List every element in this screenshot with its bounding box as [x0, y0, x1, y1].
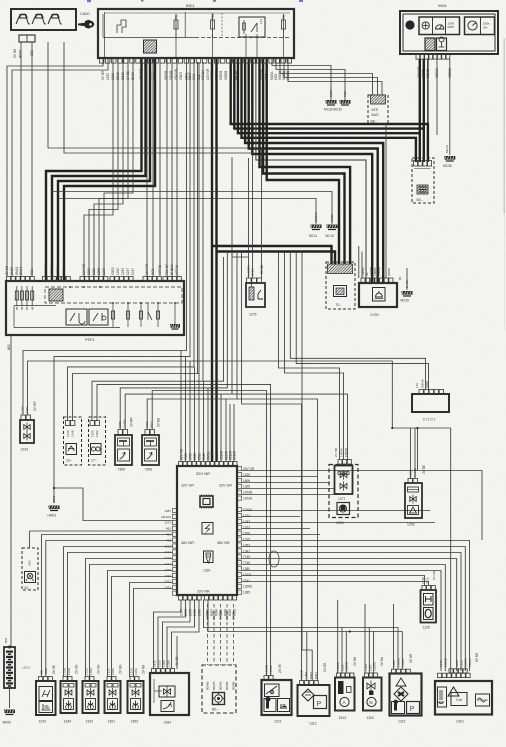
brake unit 1513: [335, 678, 355, 711]
wire 1320R cascade 4: [242, 565, 446, 672]
relay 1276: [246, 283, 265, 307]
wire 1320R fan 494.5: [242, 494, 341, 496]
ground M000: [4, 710, 15, 716]
wire 1264 2: [163, 600, 191, 670]
engine control unit 1320: [177, 466, 237, 595]
wire BSI to PSF1 thick 2: [52, 58, 146, 281]
wire BSI-PSF1 thin 1: [89, 58, 118, 277]
label BSI1: [186, 3, 195, 8]
wire mesh y356: [54, 58, 190, 503]
wire BSI band CV00 a: [245, 58, 383, 283]
wire 1310 right drop: [450, 428, 452, 674]
wire mesh y394r: [232, 394, 348, 420]
label PSF1: [85, 338, 95, 342]
C001 pin labels: [415, 378, 429, 388]
wire BSI to PSF1 thick 4: [64, 58, 155, 281]
key icon: [78, 20, 95, 29]
wire BSI to PSF1 thick 1: [46, 58, 142, 281]
wire 1320L 4: [86, 559, 173, 678]
wire BSI-PSF1 thinR 0: [146, 58, 148, 277]
label CV00: [370, 313, 379, 317]
label 1513: [339, 716, 347, 720]
label 1208: [336, 521, 344, 525]
1312 pin labels: [300, 662, 328, 679]
wire 1320R cascade 0: [242, 541, 470, 672]
BSI1 pin labels: [101, 68, 290, 80]
labels MC11 MC10: [309, 211, 334, 238]
wire 1264 4: [172, 600, 200, 670]
actuator 1351: [105, 677, 121, 713]
wire BSI-PSF1 thinR 4: [171, 58, 173, 277]
1129 pin labels: [421, 570, 436, 584]
ground MC32: [340, 100, 351, 106]
ground MC11: [311, 225, 322, 231]
wire 1115 up: [364, 604, 366, 674]
wire ATR to CV00: [385, 124, 387, 278]
wire 1221 b: [152, 391, 266, 677]
1276 pin row: [247, 278, 262, 283]
wire 1115 d1: [368, 628, 370, 674]
1221 pin row: [264, 676, 273, 681]
1334 pin labels: [63, 664, 79, 675]
wire 1129 long: [417, 428, 419, 470]
wire BSI band B4 a: [231, 58, 428, 162]
label 1351: [108, 720, 116, 724]
connector C001: [412, 394, 449, 412]
wire mesh y350: [23, 58, 187, 415]
wire branch to 70 thick 2: [217, 252, 336, 267]
wire BSI to 1320 thick 2: [215, 58, 217, 462]
wire v302: [302, 252, 312, 681]
wire left edge2: [12, 58, 108, 277]
blower unit 1264: [150, 673, 189, 715]
fan unit 1277 / 1208: [329, 465, 358, 518]
1264 pin row: [152, 669, 175, 673]
0004 pin labels: [417, 66, 452, 78]
B0 dashed wires: [206, 604, 236, 690]
ground MC30 right: [402, 291, 413, 297]
wire mesh y404r: [242, 404, 302, 440]
wire BSI-PSF1 thinR 2: [159, 58, 161, 277]
wire 1264 0: [154, 600, 182, 670]
label 1310: [456, 720, 464, 724]
1129 pin row: [422, 586, 435, 591]
wire busR2: [208, 600, 402, 670]
wire ATR 1: [280, 58, 373, 95]
wire MC35: [449, 59, 451, 155]
wire 1264 extra: [176, 636, 178, 669]
wire BSI band 70 c: [267, 58, 339, 266]
1115 pin row: [365, 673, 378, 677]
1264 pin labels: [153, 656, 179, 667]
wire BSI-PSF1 thinR 3: [166, 58, 168, 277]
wire 42 lamp: [29, 530, 172, 532]
1332 pin labels: [85, 664, 101, 675]
wire v290: [290, 252, 425, 389]
wire BSI-PSF1 thin 2: [94, 58, 123, 277]
label 1220: [39, 720, 47, 724]
wire mesh 7306b: [236, 253, 238, 399]
wire BSI band CV00 b: [249, 58, 378, 283]
wire 1320R cascade 3: [242, 559, 457, 672]
wire 1312 b: [317, 440, 319, 681]
1312 pin row: [300, 681, 319, 686]
wire 1320R 1312p4: [242, 476, 318, 478]
1513 pin labels: [336, 656, 357, 671]
connector B0: [202, 665, 236, 713]
wire BSI v203: [202, 62, 204, 381]
engine ecu 1310: [435, 681, 492, 715]
wire bus C001 low: [392, 427, 450, 429]
wire BSI-PSF1 thin 3: [99, 58, 128, 277]
wire MC30: [272, 58, 331, 100]
wire 0004 down thick 2: [423, 59, 425, 128]
connector CB1: [19, 35, 35, 42]
wire 1320L 2: [64, 547, 173, 678]
wire 1320 top stub 5: [203, 381, 205, 461]
wire 1513 up: [337, 600, 339, 674]
fuel gauge sender 1221: [262, 680, 292, 715]
label 0004: [438, 4, 446, 8]
wire busR1: [204, 600, 399, 670]
connector 17: [89, 417, 106, 465]
1253 pin labels: [409, 465, 427, 477]
wire 1320L 1: [46, 541, 173, 678]
fuel pump 1321: [390, 674, 422, 716]
label 1233: [21, 448, 29, 452]
1277 pin labels: [334, 447, 348, 457]
wire BSI to 1320 thick 1: [211, 58, 213, 462]
1320 left pin column: [173, 509, 178, 596]
wire 1320 top stub 0: [180, 351, 182, 462]
sensor 1220: [36, 677, 56, 715]
connector 70: [326, 262, 355, 309]
ground MC10: [327, 225, 338, 231]
wire BSI v197: [197, 62, 199, 374]
1353 pin labels: [130, 664, 146, 675]
wire MC32: [276, 58, 345, 100]
wire 1221 a: [97, 384, 271, 676]
wire 1129 a: [242, 576, 425, 586]
1115 pin labels: [364, 656, 384, 671]
wire 1320R cascade 5: [242, 571, 442, 672]
BSI1 pin row: [100, 59, 292, 64]
label 1276: [249, 313, 257, 317]
wire CA00 c: [48, 42, 262, 278]
wire 1253 up2: [414, 428, 416, 479]
wire 1264 1: [158, 600, 186, 670]
wire MC10: [51, 192, 332, 225]
park assist 1312: [298, 685, 330, 716]
1320 top pin labels: [179, 448, 236, 460]
wire branch to 70 thick 1: [212, 246, 332, 266]
wire BSI-PSF1 thin 4: [104, 58, 133, 277]
wire 1320 top stub 6: [207, 388, 209, 462]
wire 1320 top stub 3: [194, 367, 196, 462]
wire 1320R cascade 1: [242, 547, 466, 672]
wire 0004 down thick 1: [419, 59, 421, 132]
wire MC30b: [406, 268, 408, 290]
label M000: [3, 637, 12, 724]
1320 bottom pin labels: [179, 609, 236, 616]
PSF1 pin labels: [5, 263, 179, 275]
ground MC35: [444, 156, 455, 162]
wire CA00 d: [64, 42, 253, 278]
scan page edge artifact: [504, 38, 505, 213]
wire 1115 d2: [373, 632, 375, 674]
wire 42 drop: [28, 531, 30, 548]
heater 7306 at 115: [115, 417, 134, 472]
wire 1320 top stub 7: [220, 394, 222, 461]
label CA00: [80, 12, 90, 16]
wire BSI band B4 b: [234, 58, 423, 162]
wire HM01 branch: [54, 488, 173, 521]
0004 pin row: [416, 55, 450, 60]
actuator 1334: [61, 677, 77, 713]
1233 pin row: [21, 415, 31, 420]
BSI1 body control unit: [98, 9, 294, 58]
1233 pin labels: [21, 401, 38, 413]
wire v278: [279, 252, 340, 460]
label 5V NE: [13, 49, 23, 58]
wire 1320 top stub 2: [189, 361, 191, 462]
airbag control B5: [368, 95, 388, 124]
CV00 pin labels: [361, 265, 391, 276]
1221 pin labels: [265, 664, 283, 674]
wire 1312 d1: [306, 632, 308, 682]
label HM01: [48, 495, 57, 517]
wire 1320L 7: [112, 577, 173, 678]
wire mesh y394: [125, 253, 232, 429]
1320 top pin row: [179, 462, 238, 467]
wire 1320R cascade 2: [242, 553, 462, 672]
label 1321: [398, 720, 406, 724]
ignition switch CA00: [11, 9, 76, 30]
instrument cluster 0004: [400, 11, 498, 54]
1276 pin labels: [247, 265, 265, 276]
wire BSI band B4 d: [242, 58, 416, 162]
label 1253: [407, 523, 415, 527]
lamp connector 43: [22, 548, 38, 590]
cigar lighter 1129: [421, 590, 437, 623]
wire BSI-PSF1 thinR 1: [152, 58, 154, 277]
1253 pin row: [408, 479, 418, 484]
wire v284: [284, 252, 343, 460]
wire BSI band 70 a: [260, 58, 351, 266]
wire 1277 c: [347, 420, 349, 460]
1277 pin row: [338, 460, 351, 465]
wire mesh y373: [73, 62, 200, 421]
wire BSI band B4 c: [238, 58, 420, 162]
wire 1320L 5: [90, 565, 173, 678]
wire M000 top: [10, 335, 12, 647]
wire 1320R fan 510.5: [242, 510, 431, 512]
wire 1320R fan 522.5: [242, 522, 436, 524]
wire 1320 top stub 4: [198, 374, 200, 462]
wire 1312 a: [301, 440, 303, 681]
CV00 pin row: [361, 278, 393, 283]
wire 1129 b: [242, 582, 429, 586]
wire mesh y388: [120, 253, 227, 429]
switch 1233: [20, 420, 34, 443]
fan unit 1115: [363, 678, 382, 711]
scan artifact: [87, 0, 303, 2]
wire 1513 d2: [345, 632, 347, 674]
wire 1253 up1: [410, 428, 412, 479]
wire 1320 top stub 8: [225, 399, 227, 462]
wire BSI band 70 b: [263, 58, 344, 266]
connector 16: [64, 417, 82, 465]
wire 1320L 9: [134, 589, 173, 678]
wire left edge: [7, 58, 103, 277]
1351 pin labels: [107, 664, 123, 675]
1220 pin labels: [40, 665, 57, 675]
wire 1321 up: [393, 604, 395, 670]
wire 1276 pin1 up: [248, 158, 250, 278]
wire mesh 7306b2: [241, 253, 243, 404]
labels MC30 MC32: [324, 88, 347, 111]
ground HM01: [49, 506, 60, 512]
wire 1320R fan 528.5: [242, 528, 311, 530]
wire 1320 top stub 1: [185, 357, 187, 462]
wire loop ellipse: [269, 551, 279, 567]
wire BSI-PSF1 thin 0: [84, 58, 113, 277]
1321 pin row: [392, 669, 411, 673]
label 1129: [423, 626, 430, 630]
label 1332: [86, 720, 94, 724]
wire mesh y365 long: [28, 361, 393, 428]
wire ATR 2: [284, 58, 378, 95]
wire 1264 3: [167, 600, 195, 670]
wire M000 bot: [9, 688, 11, 708]
label 1264: [164, 721, 172, 725]
wire BSI-PSF1 thinR 5: [176, 58, 178, 277]
wire CV00 thin a: [358, 246, 360, 278]
1310 pin labels: [439, 652, 479, 667]
wire 1320L 6: [108, 571, 173, 678]
label B62: [7, 344, 11, 350]
label 1334: [64, 720, 72, 724]
connector B4: [412, 158, 434, 203]
1320 bottom pin row: [179, 596, 237, 601]
wire 1320R fan 516.5: [242, 516, 301, 518]
1321 pin labels: [392, 653, 413, 667]
wire 1320R a: [242, 471, 483, 541]
label 1115: [367, 716, 374, 720]
wire CA00 b: [31, 42, 33, 277]
wire 0004 down thin: [427, 59, 429, 136]
1320 right pin labels: [243, 467, 255, 595]
wire 0004 thin a: [436, 59, 438, 135]
1320 left pin labels: [161, 509, 172, 590]
wire 1320L 8: [130, 583, 173, 678]
ground MC30: [326, 100, 337, 106]
C001 pin row: [419, 390, 444, 395]
label 1353: [131, 720, 139, 724]
wire CV00 thin b: [361, 252, 363, 279]
wire BSI band CV00 c: [252, 58, 372, 283]
wire 1320L 0: [42, 535, 173, 678]
wire 1320 top stub 9: [229, 404, 231, 462]
buzzer CV00: [359, 283, 397, 307]
label MC35: [443, 145, 452, 168]
wire 1320R fan 488.5: [242, 488, 336, 490]
wire BSI to PSF1 thick 3: [58, 58, 150, 281]
1310 pin row: [438, 669, 471, 678]
1320 right pin column: [237, 467, 242, 595]
label LB30L: [22, 666, 31, 670]
actuator 1353: [128, 677, 144, 713]
1513 pin row: [337, 673, 354, 677]
wire ATR 3: [288, 58, 382, 95]
resistor chain M000: [4, 646, 15, 688]
wire mesh y381: [92, 257, 224, 421]
heater 7306 at 142: [142, 417, 161, 471]
wire 1320 top stub 10: [233, 404, 235, 462]
wire 1320R fan 482.5: [242, 482, 331, 484]
wire 1320L 3: [68, 553, 173, 678]
wire corner 1276: [232, 157, 249, 257]
wire CA00 a: [20, 42, 22, 277]
wire BSI band CV00 thin d: [256, 58, 366, 283]
wire 1513 d1: [341, 628, 343, 674]
blower resistor 1253: [405, 483, 422, 518]
label 1312: [309, 722, 317, 726]
fuse box PSF1: [6, 281, 184, 335]
label 1221: [274, 720, 282, 724]
label CB1: [30, 50, 34, 56]
PSF1 pin row: [7, 277, 182, 282]
label C001: [423, 418, 436, 422]
wire mesh y399: [147, 399, 317, 440]
wire MC11: [57, 199, 316, 225]
label MC30 right: [398, 276, 409, 302]
wire 1320R fan 534.5: [242, 534, 321, 536]
wire v296: [296, 252, 428, 389]
actuator 1332: [83, 677, 99, 713]
wire mesh y367: [68, 58, 195, 421]
